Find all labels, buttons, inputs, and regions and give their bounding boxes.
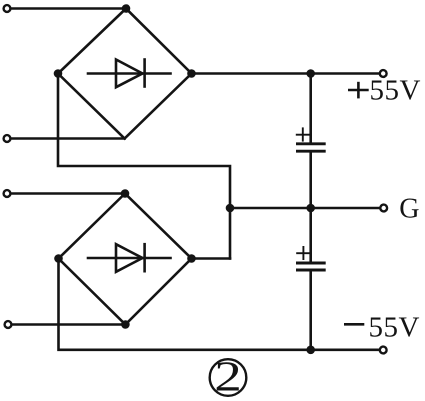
svg-text:2: 2 bbox=[214, 352, 242, 400]
svg-text:G: G bbox=[399, 194, 419, 225]
svg-text:55V: 55V bbox=[369, 312, 420, 344]
svg-text:55V: 55V bbox=[370, 75, 421, 107]
